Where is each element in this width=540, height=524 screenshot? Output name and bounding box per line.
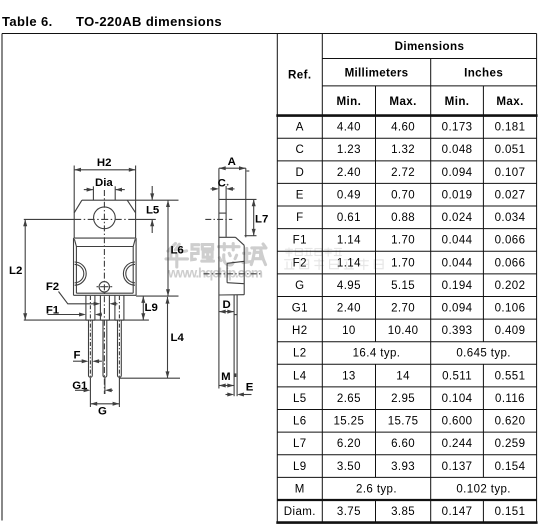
side view: tab back edge + extensions [218, 168, 220, 388]
svg-text:F1: F1 [293, 235, 307, 247]
svg-text:H2: H2 [97, 157, 112, 169]
svg-text:5.15: 5.15 [391, 280, 415, 292]
svg-text:0.70: 0.70 [391, 189, 415, 201]
svg-text:0.137: 0.137 [442, 461, 473, 473]
svg-text:A: A [228, 156, 236, 168]
svg-text:C: C [218, 177, 226, 189]
dimension L7 [253, 199, 255, 235]
svg-text:L2: L2 [9, 265, 22, 277]
svg-text:0.048: 0.048 [442, 144, 473, 156]
stray tick [247, 170, 250, 172]
figure frame left border [1, 34, 3, 521]
svg-text:www.hqchip.com: www.hqchip.com [167, 266, 263, 281]
side view: ledge [227, 261, 244, 263]
svg-text:6.60: 6.60 [391, 438, 415, 450]
svg-text:L7: L7 [255, 214, 268, 226]
svg-text:L9: L9 [145, 302, 158, 314]
svg-text:G: G [98, 405, 107, 417]
svg-text:0.107: 0.107 [495, 167, 526, 179]
svg-text:0.151: 0.151 [495, 506, 526, 518]
svg-text:D: D [295, 167, 304, 179]
svg-text:0.044: 0.044 [442, 235, 473, 247]
svg-text:0.620: 0.620 [495, 416, 526, 428]
svg-text:Min.: Min. [337, 95, 362, 108]
svg-text:0.61: 0.61 [337, 212, 361, 224]
svg-text:0.244: 0.244 [442, 438, 473, 450]
svg-text:Dia: Dia [95, 177, 113, 189]
dimension C arrows [211, 188, 214, 190]
svg-text:L4: L4 [293, 370, 307, 382]
dimension H2 line [74, 169, 135, 171]
lead tip extension line (L4 reference) [119, 377, 180, 379]
svg-text:L6: L6 [293, 416, 307, 428]
svg-text:0.393: 0.393 [442, 325, 473, 337]
svg-text:1.14: 1.14 [337, 257, 361, 269]
svg-text:0.044: 0.044 [442, 257, 473, 269]
svg-text:13: 13 [342, 370, 356, 382]
svg-text:0.551: 0.551 [495, 370, 526, 382]
front view: three leads (narrow sections) [89, 320, 93, 377]
dimension L6 [167, 200, 169, 296]
side view: L7 bottom reference [245, 235, 257, 237]
front view: bottom index circle [99, 282, 109, 292]
svg-text:E: E [246, 382, 254, 394]
svg-text:0.181: 0.181 [495, 122, 526, 134]
svg-text:Inches: Inches [464, 67, 503, 80]
svg-text:L5: L5 [293, 393, 307, 405]
svg-text:Min.: Min. [445, 95, 470, 108]
front view: tab side edges / H2 extension lines [73, 166, 75, 239]
svg-text:2.6 typ.: 2.6 typ. [356, 483, 397, 495]
svg-text:3.75: 3.75 [337, 506, 361, 518]
side view: body step [219, 236, 236, 238]
svg-text:2.72: 2.72 [391, 167, 415, 179]
side view: body top edge + L7 extension [219, 198, 257, 200]
svg-text:L9: L9 [293, 461, 307, 473]
svg-text:M: M [295, 483, 305, 495]
svg-text:E: E [296, 189, 304, 201]
svg-text:G: G [295, 280, 304, 292]
svg-text:0.88: 0.88 [391, 212, 415, 224]
svg-text:0.154: 0.154 [495, 461, 526, 473]
svg-text:H2: H2 [292, 325, 308, 337]
svg-text:0.116: 0.116 [495, 393, 525, 405]
svg-text:2.40: 2.40 [337, 302, 361, 314]
svg-text:0.027: 0.027 [495, 189, 526, 201]
svg-text:3.93: 3.93 [391, 461, 415, 473]
front view: left notch [75, 262, 87, 285]
svg-text:2.70: 2.70 [391, 302, 415, 314]
svg-text:0.102 typ.: 0.102 typ. [456, 483, 511, 495]
svg-text:0.051: 0.051 [495, 144, 526, 156]
svg-text:0.094: 0.094 [442, 302, 473, 314]
svg-text:4.60: 4.60 [391, 122, 415, 134]
front view: body outer outline [74, 237, 137, 239]
svg-text:2.65: 2.65 [337, 393, 361, 405]
side view: hole centerline [205, 218, 232, 220]
svg-text:F2: F2 [46, 281, 59, 293]
svg-text:0.066: 0.066 [495, 235, 526, 247]
svg-text:15.75: 15.75 [388, 416, 419, 428]
svg-text:L6: L6 [170, 244, 183, 256]
svg-text:0.094: 0.094 [442, 167, 473, 179]
svg-text:0.147: 0.147 [442, 506, 473, 518]
svg-text:0.202: 0.202 [495, 280, 526, 292]
side view: dimension A (top) [219, 167, 246, 169]
watermark hqchip logo text [168, 244, 176, 252]
svg-text:0.409: 0.409 [495, 325, 526, 337]
side view: notch centerline [204, 273, 261, 275]
watermark slogan line1 [285, 248, 292, 250]
lead centerline extensions for G/G1 [89, 378, 91, 407]
svg-text:Max.: Max. [496, 95, 523, 108]
svg-text:0.019: 0.019 [442, 189, 473, 201]
side view: lead [233, 295, 235, 396]
dimension L4 [167, 297, 169, 378]
vertical centerline [103, 190, 105, 394]
svg-text:15.25: 15.25 [334, 416, 365, 428]
side view: tab front edge [225, 186, 227, 237]
svg-text:0.645 typ.: 0.645 typ. [456, 348, 511, 360]
svg-text:A: A [296, 122, 304, 134]
svg-text:L7: L7 [293, 438, 307, 450]
svg-text:2.95: 2.95 [391, 393, 415, 405]
dimension L2 [24, 219, 26, 320]
lead centerlines [89, 296, 91, 377]
svg-text:Dimensions: Dimensions [395, 40, 465, 53]
svg-text:G1: G1 [292, 302, 308, 314]
svg-text:0.034: 0.034 [495, 212, 526, 224]
svg-text:10: 10 [342, 325, 356, 337]
svg-text:0.49: 0.49 [337, 189, 361, 201]
horizontal centerline through hole [24, 218, 74, 220]
svg-text:F: F [296, 212, 303, 224]
svg-text:0.106: 0.106 [495, 302, 526, 314]
svg-text:1.14: 1.14 [337, 235, 361, 247]
svg-text:0.066: 0.066 [495, 257, 526, 269]
svg-text:1.70: 1.70 [391, 257, 415, 269]
svg-text:6.20: 6.20 [337, 438, 361, 450]
svg-text:Max.: Max. [389, 95, 416, 108]
page title [2, 14, 53, 29]
dimension L5 [151, 186, 153, 200]
svg-text:L4: L4 [171, 332, 185, 344]
svg-text:4.95: 4.95 [337, 280, 361, 292]
svg-text:0.259: 0.259 [495, 438, 526, 450]
side view: front edge (upper) [245, 168, 247, 237]
svg-text:4.40: 4.40 [337, 122, 361, 134]
svg-text:10.40: 10.40 [388, 325, 419, 337]
svg-text:Millimeters: Millimeters [345, 67, 409, 80]
svg-text:3.50: 3.50 [337, 461, 361, 473]
side view: body bottom [219, 294, 244, 296]
dimension L9 [142, 296, 144, 320]
svg-text:0.173: 0.173 [442, 122, 473, 134]
svg-text:L5: L5 [146, 205, 160, 217]
body bottom extension line (L6/L4/L9 reference) [136, 295, 178, 297]
svg-text:14: 14 [396, 370, 410, 382]
front view: right notch [123, 262, 135, 285]
front view: body inner outline [76, 246, 133, 248]
mounting hole circle [94, 207, 116, 229]
side view: hole edge line [219, 212, 226, 214]
svg-text:Diam.: Diam. [284, 506, 316, 518]
front view: three leads (wide sections) [85, 295, 87, 320]
svg-text:1.23: 1.23 [337, 144, 361, 156]
svg-text:0.600: 0.600 [442, 416, 473, 428]
svg-text:0.024: 0.024 [442, 212, 473, 224]
watermark slogan line2 [285, 259, 294, 261]
svg-text:F2: F2 [293, 257, 307, 269]
extension line at lead step (L2/L9 reference) [24, 319, 149, 321]
svg-text:0.104: 0.104 [442, 393, 473, 405]
svg-text:C: C [295, 144, 304, 156]
svg-text:0.194: 0.194 [442, 280, 473, 292]
svg-text:1.32: 1.32 [391, 144, 415, 156]
svg-text:M: M [221, 371, 231, 383]
svg-text:Ref.: Ref. [288, 69, 312, 82]
svg-text:1.70: 1.70 [391, 235, 415, 247]
dimensions table grid [276, 34, 278, 523]
svg-text:2.40: 2.40 [337, 167, 361, 179]
figure/table top border [2, 33, 537, 35]
front view: tab top chamfers [74, 200, 82, 213]
svg-text:3.85: 3.85 [391, 506, 415, 518]
svg-text:F: F [74, 350, 81, 362]
svg-text:0.511: 0.511 [442, 370, 472, 382]
svg-text:16.4 typ.: 16.4 typ. [353, 348, 401, 360]
svg-text:D: D [222, 299, 230, 311]
svg-text:L2: L2 [293, 348, 307, 360]
front view: tab top edge + right extension [82, 199, 179, 201]
dimension Dia arrows [84, 189, 93, 191]
dimension Dia extension lines [92, 186, 94, 200]
dimension G [90, 403, 119, 405]
